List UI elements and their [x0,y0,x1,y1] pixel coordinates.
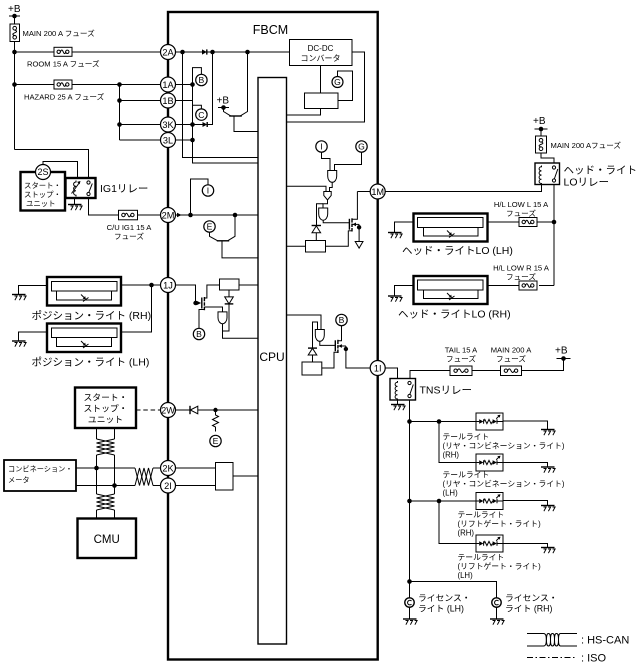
wire row4 to ground [503,544,548,548]
svg-text:ポジション・ライト (LH): ポジション・ライト (LH) [32,357,150,369]
legend ISO symbol [527,653,607,665]
svg-text:+B: +B [533,116,546,127]
svg-text:B: B [339,315,345,325]
wire pin 1I to TNS coil [385,368,398,379]
svg-text:ストップ・: ストップ・ [24,190,61,199]
transistor Q-1I (MOSFET) [322,326,346,368]
wire row2 to ground [503,463,548,468]
fuse ROOM 15 A [27,47,100,68]
wire 2M row internal [175,214,258,216]
ground headlight LH [388,233,402,239]
wire gate2 out [323,200,328,208]
wire IG1 coil to ground [74,198,76,205]
diode ZD-1M [312,226,321,233]
wire to MAIN fuse [540,129,542,136]
junction Q-1M body [357,225,361,229]
svg-text:E: E [207,222,213,232]
svg-text:(リフトゲート・ライト): (リフトゲート・ライト) [458,520,542,529]
pin 3K [161,117,176,132]
diode ZD-1I [308,348,317,355]
wire fuse to pin 2M [138,214,161,216]
pin 1I [370,361,385,376]
node G (headlight logic) [356,141,367,152]
svg-text:(リヤ・コンビネーション・ライト): (リヤ・コンビネーション・ライト) [443,480,565,489]
svg-text:ヘッド・ライトLO (RH): ヘッド・ライトLO (RH) [398,309,511,321]
FBCM module box [168,12,378,660]
twisted pair horizontal [135,468,153,486]
fuse MAIN 200 A (headlight) [536,136,622,153]
wire DC-DC bottom to block G [320,66,322,94]
wire 2K to transceiver [175,467,216,469]
svg-text:フューズ: フューズ [506,272,536,282]
svg-text:(リフトゲート・ライト): (リフトゲート・ライト) [458,562,542,571]
wire block to CPU [239,284,258,286]
wire body to arrow [358,224,360,241]
block driver 1I [302,362,322,375]
wire 3K diode to riser [207,52,212,125]
wire 2I to transceiver [175,485,216,487]
pin 2M [161,208,176,223]
svg-text:1J: 1J [163,280,173,290]
gate AND-1I [315,330,324,342]
ground position RH [12,295,26,301]
junction license row [407,579,412,584]
node G internal [332,77,343,88]
wire to fuse R [539,285,554,287]
svg-text:1B: 1B [162,96,173,106]
legend HS-CAN symbol [527,634,629,647]
node E (2M) [204,221,215,232]
lamp headlight LO LH [402,214,513,258]
wire to ROOM fuse [15,51,55,53]
svg-text:ライト (RH): ライト (RH) [505,604,552,614]
svg-text:1A: 1A [162,80,174,90]
ground tail row4 [541,548,555,554]
pin 3L [161,133,176,148]
vertical twisted pair lower [97,468,115,519]
wire to HAZARD fuse [15,84,55,86]
junction 3K row [117,122,122,127]
fuse H/L LOW R 15 A [493,264,550,291]
bulb tail light liftgate RH [476,493,503,510]
junction resistor branch [213,408,217,412]
junction +B internal [221,105,226,110]
wire column 3L to CPU [193,140,259,163]
start-stop unit box (upper) [21,172,66,211]
svg-text:B: B [199,75,205,85]
junction +B [12,14,17,19]
wire TAIL fuse to relay switch [410,371,450,379]
wire transceiver to CPU [233,475,258,477]
junction hazard branch column [117,82,122,87]
junction tail row1 [407,419,412,424]
node +B headlight [533,116,548,129]
svg-text:ライト (LH): ライト (LH) [418,604,464,614]
relay TNS [390,379,472,401]
label tail row1 [443,433,565,460]
ground headlight RH [388,296,402,302]
wire body to pin 1I [346,346,370,368]
svg-text:テールライト: テールライト [443,471,490,480]
junction CAN-L tap [112,483,117,488]
combination meter box [4,460,76,491]
fuse C/U IG1 15 A [107,210,153,241]
wire 2W to diode [175,409,190,411]
svg-text:TNSリレー: TNSリレー [420,385,473,397]
pin 2S of start-stop unit [36,165,51,180]
gate OR-2 [324,192,331,201]
svg-text:コンビネーション・: コンビネーション・ [8,465,73,474]
svg-text:ストップ・: ストップ・ [84,404,128,414]
svg-text:フューズ: フューズ [506,208,536,218]
bulb license light RH [492,593,558,614]
svg-text:テールライト: テールライト [458,511,505,520]
svg-text:ユニット: ユニット [26,199,56,208]
svg-text:(LH): (LH) [443,489,459,498]
svg-text:2S: 2S [37,167,48,177]
wire TNS coil to ground [397,400,399,405]
svg-text:IG1リレー: IG1リレー [100,183,148,195]
pin 1M [370,184,385,199]
wire to pin 3L [120,139,161,141]
wire to pin 1B [120,100,161,102]
wire lamp LH to ground [19,332,48,341]
svg-text:TAIL 15 A: TAIL 15 A [445,346,478,355]
junction 3K [190,122,195,127]
wire diode to block 1M [315,233,317,241]
transistor Q-2A (dual input junction) [224,52,259,132]
fuse HAZARD 25 A [24,80,105,102]
svg-text:HAZARD 25 A フューズ: HAZARD 25 A フューズ [24,92,105,102]
ground IG1 relay [68,205,82,211]
wire branch to diode ZD-1I [313,322,318,348]
wire license LH to ground [409,607,411,619]
wire gate3 out to MOSFET gate [323,221,349,223]
junction Q-1I body [344,347,348,351]
svg-text:2M: 2M [162,210,175,220]
ground tail row1 [541,430,555,436]
block driver 1J [220,279,240,290]
lamp position light RH [32,277,152,322]
svg-text:フューズ: フューズ [446,354,476,364]
pin 2I [161,478,176,493]
svg-text:+B: +B [8,4,21,15]
junction 1A [190,82,195,87]
node +B TNS [555,346,571,359]
ground license RH [490,619,504,625]
svg-text:H/L LOW L 15 A: H/L LOW L 15 A [494,200,549,209]
wire +B column to IG1 relay switch [15,150,89,179]
block G (regulator) [305,93,339,109]
svg-text:ヘッド・ライトLO (LH): ヘッド・ライトLO (LH) [402,245,513,257]
wire 1M to drain [357,191,370,193]
junction 1J gate [193,301,197,305]
svg-text:DC-DC: DC-DC [308,44,334,53]
wire column from 2A-a to CPU [183,52,259,158]
wire block G to CPU [287,109,321,116]
svg-text:MAIN 200 A フューズ: MAIN 200 A フューズ [23,28,96,38]
svg-text:ライセンス・: ライセンス・ [418,593,471,603]
node +B internal [217,96,230,108]
fuse MAIN 200 A (TNS) [491,346,532,376]
label tail row2 [443,471,565,498]
junction row1 branch [437,419,442,424]
relay headlight LO [535,163,637,189]
wire column 1A-3L [192,85,194,141]
diode D-2W [190,406,198,414]
wire zener to gate out [223,304,230,331]
vertical twisted pair upper [97,428,115,486]
DC-DC converter block [290,40,353,66]
wire lamp LH to ground [395,222,414,233]
wire +B to MAIN fuse [14,16,16,24]
wire row1 to ground [503,421,548,430]
wire lamp RH to ground [19,286,48,295]
svg-text:(LH): (LH) [458,571,474,580]
bulb tail light liftgate LH [476,535,503,552]
wire IG1 switch to C/U IG1 fuse [89,198,119,215]
junction 2A-c [245,50,250,55]
ground tail row2 [541,467,555,473]
junction +B TNS [561,356,566,361]
junction 2M-b [233,213,238,218]
fuse MAIN 200 A (vertical) [10,24,95,42]
svg-text:ヘッド・ライト: ヘッド・ライト [564,165,638,177]
wire CAN-H meter to twist [76,467,135,469]
svg-text:フューズ: フューズ [496,354,526,364]
node I (headlight logic) [316,141,327,152]
wire MAIN fuse down-column [14,42,16,150]
lamp headlight LO RH [398,276,511,321]
wire to pin 3K [120,124,161,126]
wire diode to CPU [198,409,258,411]
wire pin 1J to MOSFET gate [175,285,196,303]
wire gate out to CPU [223,324,259,338]
wire I to gate1 [322,152,331,170]
wire lamp LH to junction [121,285,152,332]
svg-text:(リヤ・コンビネーション・ライト): (リヤ・コンビネーション・ライト) [443,442,565,451]
block driver 1M [306,241,326,253]
svg-text:C/U IG1 15 A: C/U IG1 15 A [107,223,153,232]
arrow into gate [197,301,202,305]
svg-text:: HS-CAN: : HS-CAN [581,635,629,647]
bulb tail light rear RH [476,413,503,430]
junction HAZARD row [12,82,17,87]
wire 2S to IG1 relay coil [43,162,78,179]
wire 3L to column [175,139,193,141]
wire row4 branch [439,501,476,544]
gate AND-3 [319,208,328,220]
node I (2M) [202,185,213,196]
wire branch to diode ZD-1M [317,204,324,226]
transistor Q-2M (dual input junction) [210,215,259,258]
junction +B headlight [539,127,544,132]
wire G to gate1 [335,152,362,170]
bulb tail light rear LH [476,454,503,471]
wire +B to MAIN fuse TNS [522,359,564,371]
pin 2K [161,461,176,476]
hook to node B [193,68,202,85]
svg-text:CPU: CPU [259,350,284,364]
fuse H/L LOW L 15 A [494,200,549,227]
arrow after 2M [177,213,182,217]
wire CPU to gate2 [287,186,327,191]
svg-text:3L: 3L [163,135,173,145]
node B (1I) [336,314,347,325]
wire fuse R to lamp RH [488,285,520,287]
wire ISO dashed to 2W [136,409,160,411]
svg-text:G: G [334,77,341,87]
node E (2W) [210,435,221,446]
wire row2 branch [439,422,476,463]
svg-text:1M: 1M [371,187,384,197]
node C [196,109,207,120]
svg-text:+B: +B [555,346,568,357]
pin 1J [161,278,176,293]
wire row1 [410,421,477,423]
wire relay coil to pin 1M [385,185,542,192]
CMU box [78,519,137,559]
resistor R-2W [213,410,219,432]
wire license row [410,582,497,599]
svg-text:2W: 2W [161,405,175,415]
wire junction to fuse L [537,221,554,223]
svg-text:MAIN 200 Aフューズ: MAIN 200 Aフューズ [551,140,622,150]
lamp position light LH [32,324,150,369]
svg-text:スタート・: スタート・ [24,181,61,190]
diode D-3K [193,122,208,127]
wire lamp RH to ground [395,286,414,297]
svg-text:コンバータ: コンバータ [301,54,341,63]
wire HAZARD fuse to pin 1A [72,84,160,86]
svg-text:スタート・: スタート・ [84,393,128,403]
junction 2A-a [180,50,185,55]
wire between fuses [472,370,501,372]
svg-text:C: C [198,110,204,120]
svg-text:テールライト: テールライト [443,433,490,442]
svg-text:I: I [207,186,209,196]
junction 1B row [117,98,122,103]
svg-text:ユニット: ユニット [88,415,123,425]
svg-text:3K: 3K [162,120,174,130]
junction 2A-b [210,50,215,55]
junction row3 branch [437,499,442,504]
diode D-2A [202,49,207,54]
svg-text:ROOM 15 A フューズ: ROOM 15 A フューズ [27,59,100,69]
svg-text:フューズ: フューズ [114,231,144,241]
svg-text:メータ: メータ [8,476,30,485]
wire gate1 out [330,183,333,192]
bulb license light LH [405,593,471,614]
node +B battery feed top-left [8,4,21,16]
svg-text:LOリレー: LOリレー [564,177,610,189]
gate AND-1J [218,312,227,324]
node B (1J) [193,328,204,339]
hook node G to block [338,71,353,101]
wire fuse to relay [541,153,554,163]
gate AND-1 [328,171,337,183]
hook to node C [193,105,202,109]
junction 3L [190,138,195,143]
pin 2W [161,403,176,418]
wire twist to 2K [153,467,160,469]
svg-text:2A: 2A [162,47,174,57]
svg-text:I: I [320,142,322,152]
junction 1J branch [149,283,154,288]
fuse TAIL 15 A [445,346,478,376]
wire 2A row internal [175,51,202,53]
relay IG1 [66,178,149,198]
ground tail row3 [541,506,555,512]
wire TNS switch down [409,400,411,582]
svg-text:FBCM: FBCM [253,23,288,37]
start-stop unit box (2W) [75,388,136,429]
svg-text:2K: 2K [162,463,174,473]
hook to node I [191,179,209,215]
wire CAN-L meter to twist [76,485,135,487]
arrow out (down) [355,242,363,249]
svg-text:2I: 2I [164,481,172,491]
wire 1A to junction column [175,84,193,86]
svg-text:MAIN 200 A: MAIN 200 A [491,346,532,355]
junction H/L LOW L [552,220,557,225]
ground position LH [12,341,26,347]
junction CAN-H tap [94,466,99,471]
junction 2M-a [188,213,193,218]
wire 3K to column [175,124,193,126]
wire 2A row to DC-DC [207,51,290,53]
svg-text:(RH): (RH) [458,529,475,538]
label tail row4 [458,553,542,580]
wire lamp RH to pin 1J [121,284,160,286]
svg-text:: ISO: : ISO [581,653,607,665]
ground license LH [403,619,417,625]
wire license RH to ground [496,607,498,619]
transistor Q-1M (MOSFET) [348,192,359,232]
pin 1A [161,77,176,92]
junction ROOM row [12,50,17,55]
svg-text:CMU: CMU [94,534,120,546]
wire CPU to block 1M [287,245,306,247]
svg-text:ライセンス・: ライセンス・ [505,593,558,603]
wire row3 to ground [503,501,548,506]
wire twist to 2I [153,485,160,487]
wire gate out to MOSFET gate [320,342,336,346]
wire CPU to gate 1I [287,315,322,330]
svg-text:E: E [213,436,219,446]
wire ROOM fuse to pin 2A [72,51,160,53]
svg-text:テールライト: テールライト [458,553,505,562]
svg-text:ポジション・ライト (RH): ポジション・ライト (RH) [32,310,152,322]
ground TNS [391,405,405,411]
label tail row3 [458,511,542,538]
wire license LH down [409,582,411,599]
svg-text:+B: +B [217,96,230,107]
block CAN transceiver [216,463,234,491]
wire row3 [410,500,477,502]
pin 1B [161,93,176,108]
wire fuse L to lamp LH [488,221,520,223]
wire block 1M to MOSFET source [326,231,349,247]
junction tail row3 [407,499,412,504]
node B [196,74,207,85]
svg-text:G: G [358,142,365,152]
svg-text:H/L LOW R 15 A: H/L LOW R 15 A [493,264,550,273]
transistor Q-1J (MOSFET) [199,285,223,328]
CPU block U-CPU [258,78,287,645]
wire 1B to column [175,100,193,102]
wire DC-DC right loop to CPU [287,52,365,122]
